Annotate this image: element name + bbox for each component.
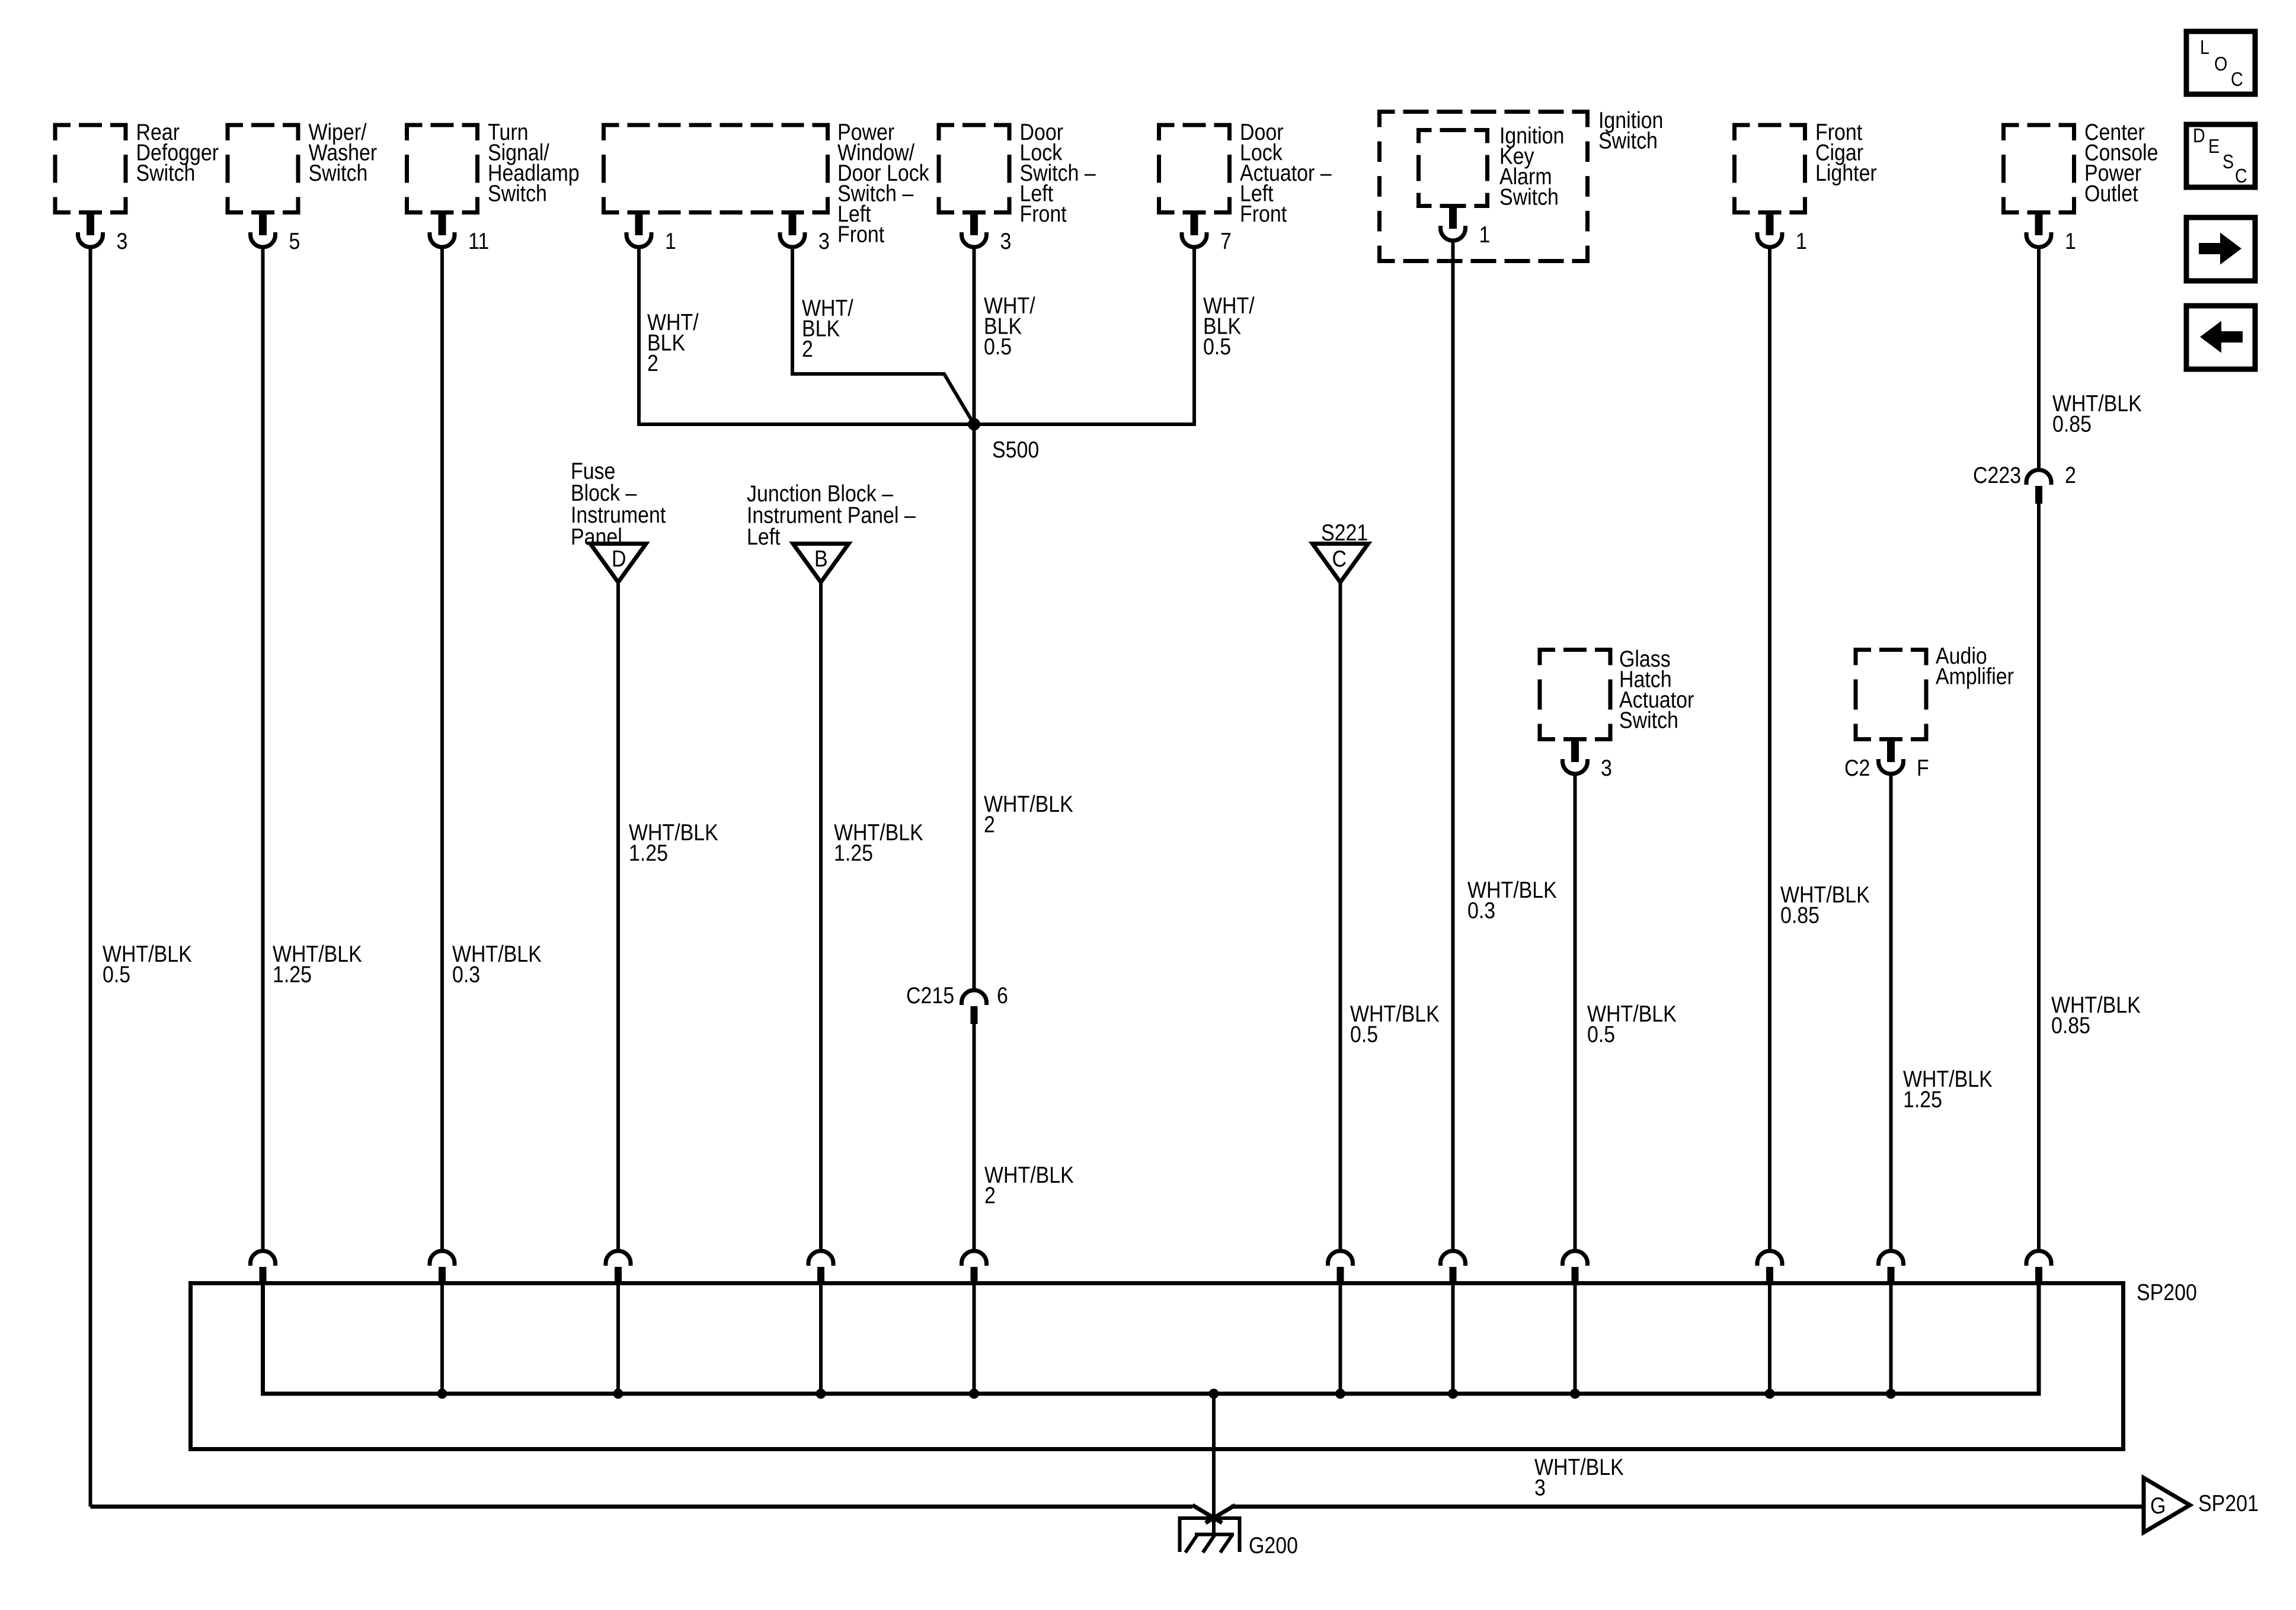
wire into ground node (left diagonal) [1192,1505,1222,1523]
SP200 internal drop and junction dot at x=2657.5 [1574,1285,1577,1394]
svg-text:6: 6 [997,982,1008,1009]
svg-text:WHT/BLK: WHT/BLK [984,791,1073,817]
SP200 internal drop and junction dot at x=746 [440,1285,444,1394]
svg-text:L: L [2200,36,2209,58]
SP200 internal bus wire [263,1283,2039,1394]
svg-text:C2: C2 [1844,755,1870,781]
svg-text:0.5: 0.5 [984,334,1012,360]
svg-text:5: 5 [289,228,300,254]
DESC legend box [2186,124,2255,187]
svg-text:7: 7 [1220,228,1232,254]
rear defogger switch (dashed box) with pin 3 [55,119,219,254]
svg-text:1: 1 [1479,222,1491,248]
SP200 entry connector arc at x=746 [430,1251,455,1266]
svg-text:Amplifier: Amplifier [1936,663,2014,689]
svg-text:3: 3 [1534,1474,1546,1500]
left-arrow legend box [2186,306,2255,369]
svg-text:0.5: 0.5 [1350,1021,1378,1047]
svg-text:0.85: 0.85 [1780,902,1819,928]
svg-text:Switch: Switch [1619,707,1678,733]
svg-text:C215: C215 [906,982,954,1009]
SP200 internal drop and junction dot at x=1385 [819,1285,823,1394]
svg-text:2: 2 [2065,462,2076,488]
svg-text:WHT/BLK: WHT/BLK [984,1162,1074,1188]
svg-text:WHT/BLK: WHT/BLK [1534,1454,1624,1480]
wire: door lock switch pin 3 down through S500 and C215 to SP200 [973,248,976,989]
wire: turn signal pin 11 down to SP200 [440,248,444,1251]
svg-text:1.25: 1.25 [273,961,312,987]
svg-text:0.3: 0.3 [452,961,480,987]
svg-text:0.85: 0.85 [2052,411,2092,437]
wire: door lock actuator pin 7 down and left to splice S500 [974,248,1195,424]
SP200 internal drop and junction dot at x=1643.5 [973,1285,976,1394]
door lock actuator - left front (dashed box) with pin 7 [1159,119,1332,254]
svg-text:C223: C223 [1973,462,2021,488]
wire: power window pin 3 down, right, diagonal to splice S500 [792,248,974,424]
SP200 entry connector arc at x=2261.5 [1328,1251,1353,1266]
wire: power window pin 1 down and right to splice S500 [639,248,974,424]
svg-text:D: D [2193,124,2205,146]
svg-text:1: 1 [2065,228,2076,254]
svg-text:F: F [1917,755,1929,781]
svg-text:Switch: Switch [1598,127,1658,153]
svg-text:3: 3 [117,228,128,254]
pin 3 connector of power window switch [780,213,830,254]
svg-text:C: C [1332,546,1347,572]
svg-text:G: G [2150,1493,2166,1519]
svg-text:C: C [2235,165,2247,187]
turn signal/headlamp switch (dashed box) with pin 11 [407,119,580,254]
wire: glass hatch actuator switch pin 3 down to SP200 [1574,774,1577,1251]
svg-text:1.25: 1.25 [1903,1086,1942,1112]
wire into ground node (right diagonal) [1205,1505,1235,1523]
svg-text:2: 2 [984,811,995,837]
SP200 internal drop and junction dot at x=2261.5 [1339,1285,1342,1394]
svg-text:3: 3 [1601,755,1612,781]
wire: rear defogger pin 3 down left side [89,248,92,1507]
svg-text:O: O [2214,53,2227,75]
SP200 internal drop and junction dot at x=2451.5 [1451,1285,1455,1394]
SP200 entry connector arc at x=2451.5 [1441,1251,1466,1266]
junction block - instrument panel - left connector B (triangle) [747,481,916,582]
center console power outlet (dashed box) with pin 1 [2004,119,2159,254]
svg-text:Lighter: Lighter [1815,160,1877,186]
SP200 entry connector arc at x=2986 [1757,1251,1782,1266]
svg-text:0.5: 0.5 [1587,1021,1615,1047]
SP200 entry connector arc at x=443.5 [251,1251,276,1266]
SP200 entry connector arc at x=3440 [2026,1251,2051,1266]
svg-text:0.85: 0.85 [2051,1012,2090,1038]
in-line connector C223 pin 2 on power outlet wire [1973,462,2076,504]
ignition switch (outer dashed box) [1380,107,1664,261]
svg-text:SP200: SP200 [2137,1279,2197,1305]
wire: wiper/washer pin 5 down to SP200 [261,248,265,1251]
svg-text:Front: Front [837,221,884,247]
svg-text:SP201: SP201 [2198,1490,2259,1516]
splice S500 junction dot and label [968,418,1039,463]
SP200 entry connector arc at x=1043 [606,1251,631,1266]
wiper/washer switch (dashed box) with pin 5 [228,119,377,254]
svg-text:G200: G200 [1249,1532,1298,1558]
svg-text:Front: Front [1240,201,1287,227]
SP200 entry connector arc at x=2657.5 [1563,1251,1588,1266]
wire: junction block triangle B down to SP200 [819,582,823,1251]
SP200 entry connector arc at x=1385 [808,1251,833,1266]
svg-text:3: 3 [818,228,830,254]
svg-text:Switch: Switch [309,160,368,186]
ground drop from SP200 bus to G200 [1209,1389,1219,1399]
wire: fuse block triangle D down to SP200 [616,582,620,1251]
wire: ignition key alarm switch pin 1 down to SP200 [1451,241,1455,1251]
svg-text:11: 11 [468,228,489,254]
ignition key alarm switch (inner dashed box) with pin 1 [1419,123,1565,248]
in-line connector C215 pin 6 on door lock wire [906,982,1008,1024]
fuse block - instrument panel connector D (triangle) [571,458,666,582]
SP200 internal drop and junction dot at x=3190.5 [1889,1285,1893,1394]
svg-text:Panel: Panel [571,524,622,550]
svg-text:0.5: 0.5 [103,961,130,987]
svg-text:S500: S500 [992,437,1039,463]
SP200 entry connector arc at x=3190.5 [1879,1251,1904,1266]
svg-text:E: E [2208,135,2220,157]
svg-text:S: S [2223,151,2234,172]
svg-text:C: C [2231,68,2243,90]
svg-text:B: B [814,546,828,572]
right-arrow legend box [2186,217,2255,281]
svg-text:S221: S221 [1321,520,1368,546]
svg-text:Outlet: Outlet [2084,180,2138,206]
splice SP201 triangle G [2144,1478,2259,1532]
svg-text:Switch: Switch [1499,184,1559,210]
audio amplifier (dashed box) with connector C2 pin F [1844,643,2014,781]
splice S221 triangle C [1313,520,1368,582]
svg-text:3: 3 [1000,228,1012,254]
svg-text:Switch: Switch [488,180,547,206]
svg-text:0.3: 0.3 [1467,897,1495,923]
svg-text:1.25: 1.25 [629,840,668,866]
splice SP200 rectangle [191,1279,2197,1449]
SP200 internal drop and junction dot at x=1043 [616,1285,620,1394]
svg-text:1: 1 [665,228,676,254]
power window/door lock switch - left front (dashed box) [604,119,930,247]
svg-text:2: 2 [647,350,658,376]
svg-text:Switch: Switch [136,160,196,186]
svg-text:1: 1 [1796,228,1807,254]
wire WHT/BLK 3 along bottom from defogger wire to SP201 [91,1505,1193,1509]
SP200 entry connector arc at x=1643.5 [962,1251,987,1266]
pin 1 connector of power window switch [626,213,676,254]
svg-text:Front: Front [1020,201,1067,227]
svg-text:0.5: 0.5 [1203,334,1231,360]
wire: audio amplifier pin F down to SP200 [1889,774,1893,1251]
front cigar lighter (dashed box) with pin 1 [1735,119,1877,254]
svg-text:2: 2 [984,1182,996,1208]
wire: S221 triangle C down to SP200 [1339,582,1342,1251]
svg-text:2: 2 [802,336,813,362]
ground G200 symbol [1180,1518,1298,1558]
SP200 internal drop and junction dot at x=2986 [1768,1285,1771,1394]
svg-text:Left: Left [747,524,781,550]
LOC legend box [2186,31,2255,94]
wire: center console power outlet pin 1 down through C223 to SP200 [2037,248,2041,469]
svg-text:1.25: 1.25 [834,840,873,866]
glass hatch actuator switch (dashed box) with pin 3 [1540,646,1694,781]
wire: front cigar lighter pin 1 down to SP200 [1768,248,1771,1251]
door lock switch - left front (dashed box) with pin 3 [939,119,1096,254]
